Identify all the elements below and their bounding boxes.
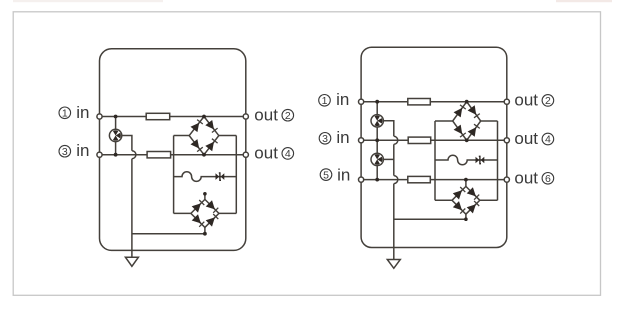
wire GDT branch xyxy=(115,117,117,155)
node label out 4 xyxy=(254,144,293,163)
svg-text:in: in xyxy=(76,103,89,122)
terminal in 3 (right) xyxy=(359,138,364,143)
junction dot xyxy=(464,178,468,182)
node label out 4 xyxy=(514,129,553,148)
wire earth bus horizontal xyxy=(132,233,205,235)
left device enclosure box xyxy=(100,49,246,251)
wire earth bus vertical xyxy=(131,159,133,258)
wire bridge B2 top stub xyxy=(204,194,206,200)
svg-text:out: out xyxy=(254,105,278,124)
wire right frame vertical (right) xyxy=(497,121,499,200)
wire GDT earth electrode xyxy=(122,136,132,151)
wire bridge B4 right arm xyxy=(480,199,498,201)
svg-text:in: in xyxy=(336,90,349,109)
node dot bridge B4 cathode elbow xyxy=(464,217,468,221)
resistor R3 xyxy=(408,99,431,105)
junction dot xyxy=(202,115,206,119)
svg-text:out: out xyxy=(254,144,278,163)
node label 3 in xyxy=(59,141,89,160)
wire surge line with fuse wave (right) xyxy=(435,155,498,165)
wire GDT G2 earth electrode xyxy=(383,121,393,137)
resistor R2 xyxy=(147,152,171,158)
TVS suppressor diode Z1 xyxy=(216,173,225,180)
diode bridge B4 xyxy=(452,186,480,214)
wire left frame vertical xyxy=(173,136,175,214)
wire hop over line3-4 (right) xyxy=(394,136,398,144)
terminal out 4 xyxy=(243,152,248,157)
terminal out 2 xyxy=(243,114,248,119)
resistor R4 xyxy=(408,137,431,143)
junction dot xyxy=(465,138,469,142)
terminal out 6 (right) xyxy=(504,177,509,182)
svg-text:3: 3 xyxy=(62,146,68,158)
wire bridge B4 left arm xyxy=(435,199,452,201)
wire hop over line5-6 (right) xyxy=(394,176,398,184)
ground symbol left xyxy=(125,257,138,266)
terminal in 1 (right) xyxy=(359,99,364,104)
junction dot xyxy=(114,153,118,157)
wire bridge B3 left arm xyxy=(435,120,453,122)
page edge artifact left xyxy=(13,0,163,2)
wire line in5 to out6 (right) xyxy=(361,179,507,181)
node label 5 in xyxy=(320,165,350,184)
junction dot xyxy=(375,178,379,182)
node label 1 in xyxy=(319,90,350,109)
svg-text:in: in xyxy=(337,165,350,184)
wire bridge B4 top stub xyxy=(465,180,467,187)
node label 1 in xyxy=(59,103,89,122)
wire bridge B1 left arm xyxy=(174,135,190,137)
node label out 6 xyxy=(514,169,553,188)
terminal in 1 xyxy=(97,114,102,119)
wire bridge B3 right arm xyxy=(481,120,498,122)
node dot bridge B2 anode stub xyxy=(203,192,207,196)
svg-text:in: in xyxy=(336,128,349,147)
junction dot xyxy=(375,138,379,142)
svg-text:4: 4 xyxy=(285,148,291,160)
svg-text:6: 6 xyxy=(545,173,551,185)
wire line in3 to out4 xyxy=(100,154,246,156)
wire bridge B2 bottom stub xyxy=(204,227,206,233)
right device enclosure box xyxy=(361,47,507,247)
wire GDT chain xyxy=(376,102,378,180)
resistor R1 xyxy=(146,113,170,119)
gas discharge tube G3 xyxy=(371,153,383,165)
wire GDT G3 earth electrode xyxy=(383,158,393,160)
svg-text:1: 1 xyxy=(322,95,328,107)
svg-text:4: 4 xyxy=(545,134,551,146)
svg-text:out: out xyxy=(514,129,538,148)
svg-text:out: out xyxy=(514,169,538,188)
wire bridge B2 right arm xyxy=(219,212,236,214)
terminal out 2 (right) xyxy=(504,99,509,104)
terminal out 4 (right) xyxy=(504,138,509,143)
svg-text:out: out xyxy=(514,91,538,110)
wire line in1 to out2 (right) xyxy=(361,101,507,103)
gas discharge tube G1 xyxy=(109,129,121,141)
svg-text:1: 1 xyxy=(62,108,68,120)
wire hop over line3-4 xyxy=(132,151,136,159)
node label out 2 xyxy=(254,105,293,124)
terminal in 5 (right) xyxy=(359,177,364,182)
TVS suppressor diode Z2 xyxy=(476,156,485,163)
wire line in3 to out4 (right) xyxy=(361,139,507,141)
diode bridge B3 xyxy=(453,102,481,141)
svg-text:3: 3 xyxy=(322,133,328,145)
node label out 2 xyxy=(514,91,553,110)
svg-text:2: 2 xyxy=(285,110,291,122)
junction dot xyxy=(465,100,469,104)
wire bridge B1 right arm xyxy=(219,135,237,137)
svg-text:5: 5 xyxy=(323,169,329,181)
wire left frame vertical (right) xyxy=(434,121,436,200)
junction dot xyxy=(375,100,379,104)
svg-text:2: 2 xyxy=(545,95,551,107)
resistor R5 xyxy=(408,176,431,182)
wire earth bus vertical (right) xyxy=(393,184,395,260)
svg-text:in: in xyxy=(76,141,89,160)
wire bridge B2 left arm xyxy=(174,212,191,214)
diode bridge B1 xyxy=(189,117,219,155)
diode bridge B2 xyxy=(191,199,219,227)
page edge artifact right xyxy=(556,0,612,2)
ground symbol right xyxy=(387,260,400,269)
junction dot xyxy=(203,232,207,236)
junction dot xyxy=(114,115,118,119)
wire surge line with fuse wave xyxy=(174,172,237,182)
gas discharge tube G2 xyxy=(371,115,383,127)
wire bridge B4 bottom stub xyxy=(465,214,467,219)
wire earth bus mid segment xyxy=(393,144,395,175)
wire line in1 to out2 xyxy=(100,116,246,118)
junction dot xyxy=(202,153,206,157)
wire right frame vertical xyxy=(235,136,237,214)
terminal in 3 xyxy=(97,152,102,157)
node label 3 in xyxy=(319,128,349,147)
wire earth bus horizontal (right) xyxy=(394,218,466,220)
